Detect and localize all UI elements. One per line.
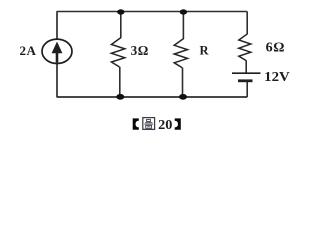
battery V1 negative plate (short thick) — [238, 79, 253, 82]
node dot top of 3-ohm branch — [117, 9, 124, 14]
svg-text:6Ω: 6Ω — [266, 41, 285, 56]
caption closing lenticular bracket — [175, 118, 181, 129]
battery V1 positive plate (long) — [232, 72, 261, 74]
resistor 3-ohm zigzag — [111, 38, 124, 68]
current source I1 2A — [42, 39, 72, 63]
wire battery to bottom node — [246, 82, 248, 97]
svg-text:2A: 2A — [20, 43, 37, 58]
wire bottom: return node — [57, 96, 248, 98]
resistor 6-ohm zigzag — [239, 34, 251, 61]
caption opening lenticular bracket — [133, 118, 139, 129]
svg-text:12V: 12V — [264, 69, 290, 84]
wire left vertical (current source branch) — [56, 12, 58, 98]
wire branch 1 vertical bottom lead — [119, 67, 121, 97]
wire branch 1 vertical top lead — [120, 12, 122, 39]
svg-text:3Ω: 3Ω — [131, 43, 149, 58]
resistor R zigzag — [174, 39, 187, 68]
svg-text:R: R — [200, 44, 210, 58]
svg-text:20: 20 — [158, 117, 172, 132]
wire right branch top lead — [246, 12, 248, 35]
node dot bottom of R branch — [179, 94, 187, 100]
wire top: node from current source to 6-ohm branch — [57, 11, 248, 13]
wire branch 2 vertical bottom lead — [182, 68, 184, 97]
wire branch 2 vertical top lead — [182, 12, 184, 40]
node dot bottom of 3-ohm branch — [116, 94, 124, 100]
caption CJK glyph 'tu' (figure) drawn as box — [143, 118, 155, 130]
wire between 6-ohm and battery — [245, 60, 247, 73]
node dot top of R branch — [180, 9, 187, 14]
